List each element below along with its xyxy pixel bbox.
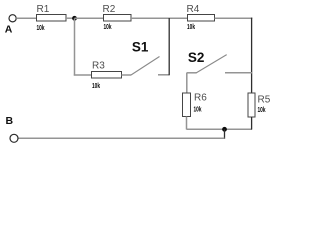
wire R1 to node1	[66, 17, 75, 19]
wire A to R1	[16, 17, 36, 19]
svg-text:R5: R5	[258, 95, 271, 106]
wire R2 to R4	[131, 17, 188, 19]
svg-text:R4: R4	[187, 4, 200, 15]
wire junction down to B wire	[224, 129, 226, 139]
wire R5 down	[251, 117, 253, 130]
terminal B	[10, 134, 18, 142]
wire right rail down to R5	[251, 18, 253, 94]
switch S2 arm	[196, 55, 227, 73]
svg-text:10k: 10k	[258, 107, 266, 114]
svg-text:10k: 10k	[104, 24, 112, 31]
wire S2 pole down to R6	[186, 73, 188, 93]
switch S1 fixed contact	[158, 74, 170, 76]
switch S2 fixed contact	[225, 72, 252, 74]
svg-text:B: B	[6, 115, 14, 127]
svg-text:S2: S2	[188, 50, 205, 65]
resistor R3	[92, 60, 122, 90]
resistor R5	[248, 93, 271, 117]
svg-text:10k: 10k	[187, 24, 195, 31]
wire R6 to R5 bottom connector	[187, 128, 252, 130]
wire S2 pole left	[187, 72, 197, 74]
resistor R1	[37, 4, 67, 32]
svg-text:R3: R3	[92, 60, 105, 71]
svg-text:R6: R6	[194, 93, 207, 104]
svg-text:10k: 10k	[92, 83, 100, 90]
svg-text:10k: 10k	[194, 107, 202, 114]
junction node1	[72, 16, 77, 21]
resistor R6	[183, 93, 208, 117]
wire node1 down to R3 row	[74, 18, 76, 75]
terminal A	[9, 15, 16, 22]
wire S1 contact up to top	[168, 18, 170, 75]
svg-text:A: A	[5, 24, 13, 36]
resistor R4	[187, 4, 215, 31]
wire R3 to S1 pole	[122, 74, 132, 76]
wire to R3	[74, 74, 92, 76]
wire node1 to R2	[75, 17, 104, 19]
junction node bottom	[222, 127, 227, 132]
svg-text:R2: R2	[103, 4, 116, 15]
wire R6 down	[186, 117, 188, 130]
wire R4 to right corner	[215, 17, 253, 19]
svg-text:S1: S1	[132, 40, 149, 55]
wire B to junction	[18, 137, 224, 139]
switch S1 arm	[131, 57, 160, 76]
svg-text:R1: R1	[37, 4, 50, 15]
resistor R2	[103, 4, 132, 31]
svg-text:10k: 10k	[37, 25, 45, 32]
